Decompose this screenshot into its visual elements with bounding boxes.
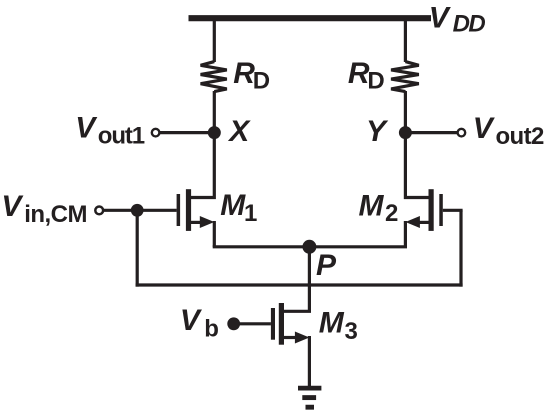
transistor M3: [271, 303, 310, 345]
wire node X to M1 drain: [191, 133, 215, 198]
svg-text:b: b: [204, 316, 218, 343]
wire M2 source to node P line: [404, 221, 407, 247]
node Y (junction dot): [399, 126, 412, 139]
label M2: [359, 189, 399, 227]
label Vin,CM: [1, 190, 87, 228]
terminal Vout1 (open circle): [152, 129, 160, 137]
label RD right: [348, 57, 385, 94]
svg-text:M: M: [359, 189, 385, 222]
wire Vin,CM terminal to M1 gate: [101, 209, 177, 212]
svg-text:out2: out2: [496, 123, 545, 150]
wire node Y to Vout2 terminal: [405, 131, 459, 134]
terminal dot Vb: [227, 317, 240, 330]
wire Vb terminal to M3 gate: [234, 322, 271, 325]
svg-text:D: D: [253, 67, 270, 94]
label VDD: [429, 2, 486, 38]
wire M1 source to node P line: [213, 221, 216, 247]
wire M3 source down to ground: [308, 336, 311, 386]
wire RD right to node Y: [404, 91, 407, 134]
svg-text:V: V: [75, 112, 98, 145]
label M1: [220, 189, 257, 227]
transistor M1: [177, 189, 215, 231]
wire source join line through node P: [213, 245, 407, 248]
ground: [298, 388, 321, 407]
svg-text:2: 2: [385, 200, 398, 227]
resistor RD left: [201, 62, 227, 92]
wire Vout1 terminal to node X: [157, 131, 214, 134]
wire node Y to M2 drain: [405, 133, 429, 198]
wire Vin junction down to bottom feed: [136, 210, 139, 286]
svg-text:X: X: [227, 115, 251, 148]
svg-text:1: 1: [244, 200, 257, 227]
svg-text:V: V: [180, 304, 203, 337]
svg-text:DD: DD: [453, 10, 486, 37]
svg-text:Y: Y: [366, 115, 389, 148]
terminal Vin,CM (open circle): [95, 207, 103, 215]
label M3: [319, 307, 358, 345]
wire M2 gate lead: [443, 209, 463, 212]
label Vout2: [473, 112, 544, 150]
wire RD left to node X: [213, 91, 216, 134]
svg-text:M: M: [319, 307, 345, 340]
svg-text:V: V: [429, 2, 452, 35]
svg-text:D: D: [367, 67, 384, 94]
node: Vin,CM junction dot: [131, 204, 144, 217]
label Vb: [180, 304, 218, 343]
label Vout1: [75, 112, 145, 150]
VDD rail: [189, 15, 432, 21]
wire node P down to M3 drain: [284, 247, 310, 311]
svg-text:M: M: [220, 189, 246, 222]
node P (junction dot): [302, 240, 316, 254]
wire rail to RD left: [213, 20, 216, 62]
wire right feed up to M2 gate: [459, 210, 462, 286]
transistor M2: [405, 189, 442, 231]
resistor RD right: [391, 62, 419, 92]
svg-text:V: V: [473, 112, 496, 145]
wire bottom gate feed: [136, 283, 463, 286]
label RD left: [233, 57, 269, 94]
svg-text:V: V: [1, 190, 24, 223]
terminal Vout2 (open circle): [458, 129, 466, 137]
node X (junction dot): [208, 126, 221, 139]
svg-text:3: 3: [345, 318, 358, 345]
svg-text:in,CM: in,CM: [24, 201, 87, 228]
svg-text:P: P: [316, 249, 337, 282]
svg-text:out1: out1: [98, 123, 145, 150]
wire rail to RD right: [404, 20, 407, 62]
